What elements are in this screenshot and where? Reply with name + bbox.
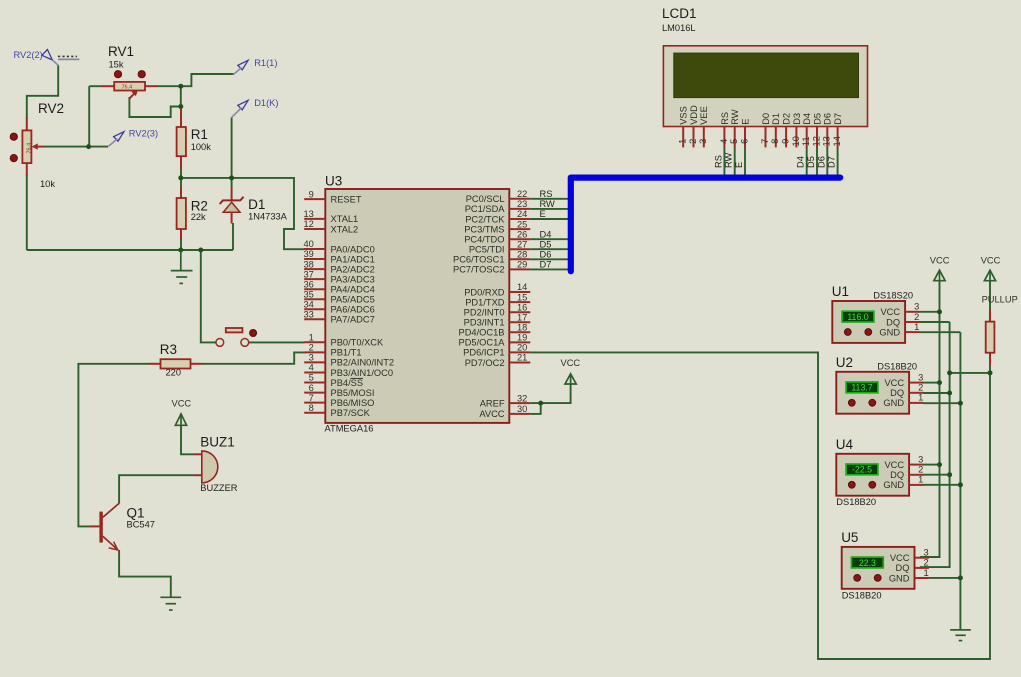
svg-text:PB6/MISO: PB6/MISO — [331, 398, 375, 408]
temperature sensor U1 (DS18S20) — [832, 284, 920, 343]
wire LCD D5 down to bus — [816, 147, 818, 178]
svg-text:PC0/SCL: PC0/SCL — [466, 194, 505, 204]
wire U3 PD6 one-wire loop to PULLUP — [530, 352, 990, 659]
svg-text:1N4733A: 1N4733A — [248, 212, 288, 222]
wire U3 PC2 to bus (E) — [530, 218, 568, 220]
svg-text:VCC: VCC — [884, 460, 904, 470]
terminal R1(1) — [233, 58, 277, 75]
svg-text:DQ: DQ — [890, 470, 904, 480]
LCD1 pin 6 (E) — [739, 119, 750, 148]
svg-text:3: 3 — [924, 548, 929, 558]
U3 pin 8 (PB7/SCK) — [304, 403, 370, 418]
svg-text:2: 2 — [918, 383, 923, 393]
svg-text:2: 2 — [309, 343, 314, 353]
wire Q1 emitter to ground — [119, 550, 171, 597]
svg-text:10k: 10k — [40, 179, 55, 189]
U3 pin 26 (PC4/TDO) — [464, 229, 530, 244]
svg-text:E: E — [740, 119, 750, 125]
svg-text:D1: D1 — [248, 197, 265, 212]
svg-text:DS18B20: DS18B20 — [836, 497, 876, 507]
svg-text:39: 39 — [303, 249, 313, 259]
svg-text:22: 22 — [517, 189, 527, 199]
wire RV1 wiper loop — [129, 97, 180, 117]
svg-text:PD4/OC1B: PD4/OC1B — [459, 328, 505, 338]
U3 pin 21 (PD7/OC2) — [465, 353, 531, 368]
lcd screen — [674, 53, 859, 98]
svg-text:1: 1 — [678, 139, 688, 144]
U3 pin 16 (PD2/INT0) — [464, 302, 531, 317]
wire AVCC jog — [530, 403, 540, 414]
U3 pin 29 (PC7/TOSC2) — [453, 260, 530, 275]
svg-text:RS: RS — [720, 112, 730, 125]
svg-text:D7: D7 — [833, 113, 843, 125]
svg-text:PC4/TDO: PC4/TDO — [464, 235, 504, 245]
wire U4 DQ — [924, 474, 950, 476]
junction ground rail at button branch — [198, 248, 203, 253]
svg-text:1: 1 — [918, 475, 923, 485]
U3 pin 4 (PB3/AIN1/OC0) — [304, 363, 393, 378]
junction GND rail at U4 — [958, 482, 963, 487]
svg-text:12: 12 — [811, 136, 821, 146]
svg-text:PC6/TOSC1: PC6/TOSC1 — [453, 255, 505, 265]
resistor R3 — [149, 342, 203, 378]
svg-text:D1(K): D1(K) — [254, 98, 278, 108]
U3 pin 1 (PB0/T0/XCK) — [304, 333, 384, 348]
svg-text:33: 33 — [303, 310, 313, 320]
U3 pin 33 (PA7/ADC7) — [303, 310, 374, 325]
LCD1 pin 13 (D6) — [822, 113, 833, 147]
junction GND rail at U2 — [958, 401, 963, 406]
svg-text:D1: D1 — [771, 113, 781, 125]
svg-text:26: 26 — [517, 229, 527, 239]
wire LCD D6 down to bus — [826, 147, 828, 178]
svg-text:9: 9 — [309, 189, 314, 199]
svg-text:3: 3 — [914, 302, 919, 312]
svg-text:29: 29 — [517, 260, 527, 270]
svg-text:7: 7 — [760, 139, 770, 144]
wire D1 cathode node up to D1(K) terminal — [231, 117, 233, 177]
wire button branch from rail — [201, 250, 216, 342]
U3 pin 25 (PC3/TMS) — [464, 219, 530, 234]
power VCC symbol (PULLUP) — [981, 256, 1001, 282]
svg-text:21: 21 — [517, 353, 527, 363]
svg-text:D3: D3 — [792, 113, 802, 125]
svg-text:GND: GND — [883, 398, 904, 408]
svg-text:E: E — [734, 162, 744, 168]
svg-text:VDD: VDD — [689, 105, 699, 125]
LCD1 pin 7 (D0) — [760, 113, 771, 147]
svg-text:24: 24 — [517, 209, 527, 219]
U5 pin 3 (VCC) — [915, 557, 930, 559]
U1 pin 2 (DQ) — [905, 321, 920, 323]
svg-text:22.3: 22.3 — [859, 558, 876, 568]
svg-text:1: 1 — [309, 333, 314, 343]
U3 pin 3 (PB2/AIN0/INT2) — [304, 353, 394, 368]
svg-text:8: 8 — [770, 139, 780, 144]
LCD1 pin 11 (D4) — [801, 113, 812, 147]
svg-text:VSS: VSS — [679, 106, 689, 125]
svg-text:11: 11 — [801, 136, 811, 146]
U1 pin 1 (GND) — [905, 331, 920, 333]
svg-text:PD2/INT0: PD2/INT0 — [464, 308, 505, 318]
svg-text:6: 6 — [739, 139, 749, 144]
svg-text:GND: GND — [879, 327, 900, 337]
svg-text:PD5/OC1A: PD5/OC1A — [459, 338, 506, 348]
junction VCC rail at U1 — [937, 309, 942, 314]
push button — [216, 328, 257, 346]
resistor R1 — [177, 109, 212, 169]
svg-text:PA3/ADC3: PA3/ADC3 — [331, 274, 375, 284]
wire D1 cathode stub link — [231, 178, 233, 188]
wire U2 GND — [924, 402, 961, 404]
wire U3 PC7 to bus (D7) — [530, 268, 568, 270]
U3 pin 12 (XTAL2) — [303, 219, 358, 234]
svg-text:D6: D6 — [816, 156, 826, 168]
svg-text:19: 19 — [517, 333, 527, 343]
wire D1 anode to bottom rail — [232, 223, 234, 250]
svg-text:10: 10 — [791, 136, 801, 146]
svg-text:RS: RS — [540, 189, 553, 199]
junction GND rail at U5 — [958, 575, 963, 580]
svg-text:VCC: VCC — [890, 553, 910, 563]
svg-text:PC3/TMS: PC3/TMS — [464, 224, 504, 234]
U3 pin 37 (PA3/ADC3) — [303, 269, 374, 284]
svg-text:RV2(2): RV2(2) — [14, 50, 43, 60]
wire U4 GND — [924, 484, 961, 486]
wire bottom ground rail — [27, 249, 233, 251]
junction node B (R1/R2) — [178, 175, 183, 180]
svg-text:PB7/SCK: PB7/SCK — [331, 408, 371, 418]
svg-text:18: 18 — [517, 323, 527, 333]
svg-text:4: 4 — [719, 139, 729, 144]
svg-text:DQ: DQ — [896, 563, 910, 573]
junction D1 cathode node — [229, 175, 234, 180]
svg-text:5: 5 — [309, 373, 314, 383]
U2 indicator circles — [848, 399, 855, 406]
svg-text:D0: D0 — [761, 113, 771, 125]
junction DQ rail at U4 — [947, 472, 952, 477]
svg-text:DQ: DQ — [886, 317, 900, 327]
U3 pin 18 (PD4/OC1B) — [459, 323, 531, 338]
svg-text:15k: 15k — [109, 59, 124, 69]
svg-text:34: 34 — [303, 300, 313, 310]
svg-text:PD6/ICP1: PD6/ICP1 — [463, 348, 504, 358]
svg-text:PC5/TDI: PC5/TDI — [469, 245, 505, 255]
svg-text:220: 220 — [166, 368, 182, 378]
svg-text:RW: RW — [540, 199, 556, 209]
svg-text:BUZZER: BUZZER — [200, 483, 237, 493]
svg-text:Q1: Q1 — [127, 505, 145, 520]
terminal D1(K) — [232, 98, 279, 117]
U3 pin 36 (PA4/ADC4) — [303, 279, 374, 294]
wire RV2(2) terminal to RV2 pin1 — [27, 65, 58, 119]
U3 pin 19 (PD5/OC1A) — [459, 333, 531, 348]
wire U2 DQ — [924, 392, 950, 394]
svg-text:PD3/INT1: PD3/INT1 — [464, 318, 505, 328]
svg-text:XTAL2: XTAL2 — [331, 224, 359, 234]
svg-text:PD0/RXD: PD0/RXD — [464, 287, 505, 297]
LCD1 pin 5 (RW) — [729, 109, 740, 147]
U4 display value -22.5 — [846, 464, 878, 475]
U3 pin 14 (PD0/RXD) — [464, 282, 530, 297]
svg-text:37: 37 — [303, 269, 313, 279]
svg-text:BC547: BC547 — [127, 520, 155, 530]
svg-text:13: 13 — [303, 209, 313, 219]
svg-text:RS: RS — [713, 155, 723, 168]
svg-text:LCD1: LCD1 — [662, 6, 697, 21]
svg-text:VCC: VCC — [930, 256, 950, 266]
wire node A to R1(1) terminal — [181, 74, 234, 86]
LCD1 pin 1 (VSS) — [678, 106, 689, 147]
svg-text:36: 36 — [303, 279, 313, 289]
svg-text:PB5/MOSI: PB5/MOSI — [331, 388, 375, 398]
U4 pin 2 (DQ) — [909, 474, 924, 476]
svg-text:30: 30 — [517, 404, 527, 414]
wire R3 left to Q1 base net — [78, 364, 149, 527]
svg-text:13: 13 — [822, 136, 832, 146]
wire U3 PC0 to bus (RS) — [530, 198, 568, 200]
U3 pin 39 (PA1/ADC1) — [303, 249, 374, 264]
wire VCC to buzzer top — [181, 426, 194, 455]
svg-text:28: 28 — [517, 250, 527, 260]
junction at R1 top — [178, 104, 183, 109]
svg-text:DS18B20: DS18B20 — [842, 590, 882, 600]
svg-text:RW: RW — [724, 152, 734, 168]
wire node B to U3 PA0 staircase — [181, 178, 305, 249]
svg-text:100k: 100k — [191, 142, 212, 152]
U2 display value 113.7 — [846, 382, 878, 393]
LCD1 pin 3 (VEE) — [698, 106, 709, 147]
svg-text:17: 17 — [517, 312, 527, 322]
U3 pin 15 (PD1/TXD) — [465, 292, 530, 307]
junction AREF/AVCC — [538, 401, 543, 406]
svg-text:PA0/ADC0: PA0/ADC0 — [331, 244, 375, 254]
U5 pin 2 (DQ) — [915, 567, 930, 569]
transistor Q1 — [90, 503, 155, 550]
U3 pin 5 (PB4/SS) — [304, 373, 363, 388]
U2 pin 3 (VCC) — [909, 382, 924, 384]
lcd LCD1 LM016L body — [662, 6, 868, 127]
svg-text:R3: R3 — [160, 342, 177, 357]
svg-text:U5: U5 — [841, 530, 858, 545]
svg-text:XTAL1: XTAL1 — [331, 214, 359, 224]
resistor R2 — [177, 188, 208, 240]
wire LCD D7 down to bus — [837, 147, 839, 178]
junction node A (RV1 right) — [178, 84, 183, 89]
wire R1 bottom to node B — [180, 167, 182, 188]
svg-text:4: 4 — [309, 363, 314, 373]
junction VCC rail at U4 — [937, 462, 942, 467]
svg-text:D5: D5 — [812, 113, 822, 125]
svg-text:PC2/TCK: PC2/TCK — [465, 214, 505, 224]
svg-text:PC7/TOSC2: PC7/TOSC2 — [453, 265, 505, 275]
wire RV1 pin1 drop to wiper net — [89, 85, 102, 87]
temperature sensor U5 (DS18B20) — [841, 530, 929, 600]
svg-text:U2: U2 — [836, 355, 853, 370]
svg-text:D4: D4 — [802, 113, 812, 125]
U1 indicator circles — [844, 329, 851, 336]
svg-text:2: 2 — [914, 312, 919, 322]
U5 pin 1 (GND) — [915, 577, 930, 579]
svg-text:PD7/OC2: PD7/OC2 — [465, 358, 505, 368]
svg-text:116.0: 116.0 — [847, 312, 868, 322]
svg-text:23: 23 — [517, 199, 527, 209]
svg-text:PB3/AIN1/OC0: PB3/AIN1/OC0 — [331, 368, 394, 378]
U3 pin 17 (PD3/INT1) — [464, 312, 531, 327]
svg-text:1: 1 — [914, 322, 919, 332]
svg-text:D4: D4 — [540, 229, 552, 239]
svg-text:D5: D5 — [540, 239, 552, 249]
svg-text:U3: U3 — [325, 173, 342, 188]
U3 pin 22 (PC0/SCL) — [466, 189, 531, 204]
svg-text:PULLUP: PULLUP — [982, 295, 1018, 305]
svg-text:E: E — [540, 209, 546, 219]
U4 pin 1 (GND) — [909, 484, 924, 486]
junction at RV2 wiper / RV1 branch — [86, 144, 91, 149]
net marker dashes — [58, 56, 79, 59]
LCD1 pin 4 (RS) — [719, 112, 730, 148]
power VCC symbol (buzzer) — [172, 399, 192, 427]
svg-text:5: 5 — [729, 139, 739, 144]
U3 pin 30 (AVCC) — [479, 404, 530, 419]
junction VCC rail at U2 — [937, 380, 942, 385]
wire DQ rail — [920, 322, 950, 567]
svg-text:PA5/ADC5: PA5/ADC5 — [331, 295, 375, 305]
wire U1 DQ — [920, 321, 950, 323]
svg-text:2: 2 — [918, 465, 923, 475]
svg-text:DS18B20: DS18B20 — [877, 361, 917, 371]
U4 pin 3 (VCC) — [909, 464, 924, 466]
svg-text:22k: 22k — [191, 212, 206, 222]
wire RV1 pin1 vertical — [88, 86, 90, 146]
ground symbol (sensor GND rail) — [950, 630, 971, 641]
svg-text:PB2/AIN0/INT2: PB2/AIN0/INT2 — [331, 358, 395, 368]
svg-text:AVCC: AVCC — [479, 409, 504, 419]
svg-text:PA1/ADC1: PA1/ADC1 — [331, 254, 375, 264]
U4 indicator circles — [848, 481, 855, 488]
wire R3 right to U3 PB1 — [202, 352, 305, 363]
junction PULLUP bottom link — [988, 370, 993, 375]
wire LCD RW down to bus — [734, 147, 736, 178]
svg-text:VCC: VCC — [884, 378, 904, 388]
svg-text:27: 27 — [517, 239, 527, 249]
buzzer BUZ1 — [194, 435, 238, 493]
U3 pin 40 (PA0/ADC0) — [303, 239, 374, 254]
wire buzzer bottom to Q1 collector — [119, 475, 194, 503]
U3 pin 35 (PA5/ADC5) — [303, 289, 374, 304]
svg-text:2: 2 — [924, 558, 929, 568]
wire U5 GND — [920, 577, 960, 579]
wire DQ rail to PULLUP bottom — [950, 372, 990, 374]
LCD1 pin 2 (VDD) — [688, 105, 699, 148]
svg-text:6: 6 — [309, 383, 314, 393]
zener diode D1 — [220, 188, 288, 224]
svg-text:7: 7 — [309, 393, 314, 403]
wire RV2 pin3 down to bottom rail — [26, 174, 28, 250]
ground symbol (Q1 emitter) — [160, 597, 181, 610]
wire node A down to R1 top — [180, 86, 182, 109]
U3 pin 27 (PC5/TDI) — [469, 239, 530, 254]
svg-text:-22.5: -22.5 — [852, 465, 872, 475]
U1 pin 3 (VCC) — [905, 311, 920, 313]
svg-text:R1(1): R1(1) — [254, 58, 277, 68]
wire button to U3 PB0 — [249, 341, 305, 343]
svg-text:VCC: VCC — [172, 399, 192, 409]
temperature sensor U4 (DS18B20) — [836, 437, 924, 507]
svg-text:D7: D7 — [827, 156, 837, 168]
wire LCD E down to bus — [744, 147, 746, 178]
svg-text:GND: GND — [889, 573, 910, 583]
wire LCD RS down to bus — [723, 147, 725, 178]
wire AREF to VCC arrow — [530, 384, 570, 404]
U3 pin 28 (PC6/TOSC1) — [453, 250, 530, 265]
LCD1 pin 9 (D2) — [781, 113, 792, 147]
svg-text:PB4/SS: PB4/SS — [331, 378, 364, 388]
svg-text:BUZ1: BUZ1 — [200, 435, 235, 450]
svg-text:RV2: RV2 — [38, 101, 64, 116]
svg-text:RESET: RESET — [331, 194, 362, 204]
svg-text:RW: RW — [730, 109, 740, 125]
U5 display value 22.3 — [852, 557, 884, 568]
svg-text:PA2/ADC2: PA2/ADC2 — [331, 264, 375, 274]
U5 indicator circles — [854, 575, 861, 582]
svg-text:VCC: VCC — [981, 256, 1001, 266]
svg-text:R1: R1 — [191, 127, 208, 142]
svg-text:LM016L: LM016L — [662, 23, 696, 33]
U3 pin 32 (AREF) — [480, 393, 531, 408]
svg-text:76.4: 76.4 — [27, 143, 33, 154]
svg-text:9: 9 — [781, 139, 791, 144]
LCD1 pin 10 (D3) — [791, 113, 802, 147]
U3 pin 2 (PB1/T1) — [304, 343, 361, 358]
junction DQ rail at PULLUP link — [947, 370, 952, 375]
svg-text:DS18S20: DS18S20 — [873, 291, 913, 301]
svg-text:VCC: VCC — [880, 307, 900, 317]
wire U3 PC4 to bus (D4) — [530, 238, 568, 240]
power VCC symbol (AREF/AVCC) — [561, 358, 581, 384]
svg-text:8: 8 — [309, 403, 314, 413]
U1 display value 116.0 — [842, 311, 874, 322]
svg-text:14: 14 — [517, 282, 527, 292]
svg-text:AREF: AREF — [480, 398, 505, 408]
U2 pin 2 (DQ) — [909, 392, 924, 394]
svg-text:PB1/T1: PB1/T1 — [331, 348, 362, 358]
terminal RV2(2) — [14, 50, 59, 66]
wire U4 VCC — [924, 464, 940, 466]
svg-text:D6: D6 — [823, 113, 833, 125]
svg-text:DQ: DQ — [890, 388, 904, 398]
svg-text:40: 40 — [303, 239, 313, 249]
ground symbol (left rail) — [171, 250, 193, 283]
wire RV1 pin2 to node A — [157, 85, 181, 87]
U3 pin 6 (PB5/MOSI) — [304, 383, 374, 398]
svg-text:D2: D2 — [782, 113, 792, 125]
svg-text:U4: U4 — [836, 437, 854, 452]
wire VCC rail sensors — [920, 281, 940, 557]
svg-text:1: 1 — [918, 393, 923, 403]
bus LCD data (thick blue) — [571, 178, 840, 272]
svg-text:D5: D5 — [806, 156, 816, 168]
svg-text:76.4: 76.4 — [122, 85, 133, 91]
svg-text:GND: GND — [883, 480, 904, 490]
svg-text:15: 15 — [517, 292, 527, 302]
svg-text:RV2(3): RV2(3) — [129, 129, 158, 139]
U3 pin 34 (PA6/ADC6) — [303, 300, 374, 315]
wire R2 bottom to rail — [180, 239, 182, 250]
svg-text:113.7: 113.7 — [851, 383, 872, 393]
wire PULLUP top from VCC — [989, 281, 991, 309]
U3 pin 38 (PA2/ADC2) — [303, 259, 374, 274]
